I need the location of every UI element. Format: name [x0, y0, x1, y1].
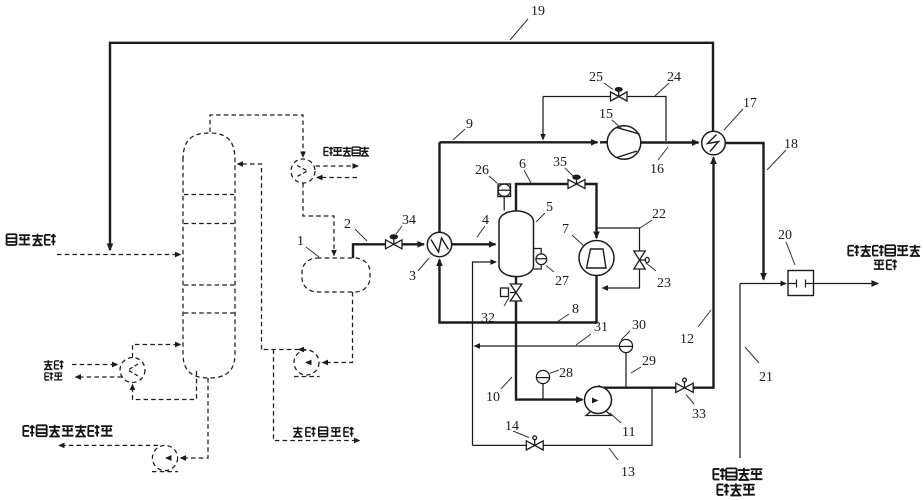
- svg-text:5: 5: [546, 200, 553, 215]
- wire pump 11 discharge line: [597, 387, 676, 389]
- heat exchanger 3: [427, 232, 451, 256]
- wire cooling water outlet: [316, 165, 359, 167]
- wire line 8 riser into heat exchanger 3: [438, 260, 440, 323]
- wire mixer inlet line from line 21: [740, 283, 786, 285]
- column tray line 2: [184, 223, 234, 225]
- wire line 9 suction header: [440, 141, 598, 143]
- wire bypass line 22 around compressor 7: [598, 228, 640, 251]
- svg-text:32: 32: [481, 311, 495, 326]
- svg-text:19: 19: [531, 4, 545, 19]
- svg-text:27: 27: [555, 274, 569, 289]
- wire condensate outlet: [76, 376, 123, 378]
- text label: 混合物 (mixture): [717, 483, 755, 495]
- compressor 15: [607, 126, 641, 160]
- svg-text:33: 33: [692, 407, 706, 422]
- text label: 循环冷却水 (circulating cooling water): [324, 147, 369, 156]
- wire line 16 compressor discharge: [641, 141, 699, 143]
- text label: 蒸汽 (steam): [44, 360, 64, 369]
- wire riser from line 13 to vessel 5: [473, 262, 497, 445]
- svg-text:10: 10: [486, 390, 500, 405]
- valve 33: [676, 383, 693, 392]
- instrument 30: [619, 339, 632, 352]
- wire left riser line 9 side: [438, 142, 440, 232]
- svg-text:14: 14: [505, 419, 519, 434]
- valve 25: [611, 92, 628, 101]
- wire line 10 valve 32 to pump 11: [516, 301, 583, 400]
- wire steam inlet: [72, 364, 118, 366]
- wire line 6 vessel 5 overhead: [516, 184, 568, 211]
- column tray line 4: [184, 312, 234, 314]
- wire cooling water inlet: [317, 177, 357, 179]
- svg-text:7: 7: [562, 222, 569, 237]
- compressor 7: [579, 241, 614, 276]
- svg-text:34: 34: [402, 213, 416, 228]
- wire line 18: [725, 143, 763, 280]
- wire column bottom draw to reboiler: [133, 371, 197, 400]
- wire feed propane line: [57, 254, 181, 256]
- instrument 28: [536, 370, 549, 383]
- svg-text:3: 3: [409, 269, 416, 284]
- svg-text:30: 30: [632, 318, 646, 333]
- pump 11 internal arrow: [592, 400, 598, 402]
- wire reflux pump discharge: [299, 349, 307, 351]
- reflux pump: [294, 350, 319, 375]
- wire vessel 5 bottom to valve 32: [515, 277, 517, 284]
- reflux drum (dashed echo of drum 1): [302, 258, 370, 292]
- svg-text:13: 13: [621, 465, 635, 480]
- text label: 碳四及以上组分 (C4 and heavier components): [23, 425, 112, 437]
- wire C4+ bottoms product line: [59, 444, 158, 446]
- text label: 液相产品 (liquid phase product): [713, 468, 762, 480]
- valve 14: [526, 441, 543, 450]
- svg-text:23: 23: [657, 276, 671, 291]
- wire line 19 recycle to column feed: [110, 43, 713, 250]
- reference number labels: [297, 4, 798, 480]
- valve 32: [510, 284, 521, 301]
- svg-text:16: 16: [650, 162, 664, 177]
- text label: 凝液 (condensate): [45, 372, 62, 380]
- svg-text:22: 22: [652, 207, 666, 222]
- wire reboiler vapor return to column: [133, 345, 181, 358]
- wire mixer outlet to deethanizer: [814, 283, 879, 285]
- column tray line 1: [184, 194, 234, 196]
- svg-text:31: 31: [594, 320, 608, 335]
- wire condenser outlet to reflux drum: [303, 183, 334, 256]
- svg-text:1: 1: [297, 234, 304, 249]
- wire line 21 liquid product mixture: [739, 284, 741, 459]
- wire reflux riser to column top: [238, 164, 262, 350]
- heat exchanger 17: [702, 131, 726, 155]
- valve 32 actuator box: [501, 288, 509, 297]
- wire line 2 drum to heat exchanger 3: [353, 244, 385, 258]
- wire anti-surge bypass line 24: [543, 97, 666, 142]
- column tray line 3: [184, 284, 234, 286]
- reboiler: [120, 358, 145, 383]
- wire high purity propane product line: [274, 350, 360, 441]
- wire line 31 return to vessel 5: [475, 345, 620, 347]
- svg-text:15: 15: [599, 107, 613, 122]
- svg-text:12: 12: [680, 332, 694, 347]
- mixer 20: [788, 271, 814, 296]
- svg-text:17: 17: [743, 96, 757, 111]
- wire line 13 minimum-flow line: [473, 389, 653, 446]
- svg-text:9: 9: [466, 117, 473, 132]
- svg-text:24: 24: [667, 70, 681, 85]
- bypass arrow onto line 9: [542, 133, 544, 140]
- pump discharge flow arrow: [600, 387, 604, 389]
- svg-text:35: 35: [553, 155, 567, 170]
- svg-text:25: 25: [589, 70, 603, 85]
- vessel 5 economizer drum: [499, 211, 534, 277]
- text label: 原料丙烷 (feed propane): [7, 234, 56, 245]
- wire drum bottom outlet to reflux pump: [323, 292, 353, 363]
- wire line 29: [625, 353, 627, 387]
- svg-text:18: 18: [784, 137, 798, 152]
- text label: 脱乙烷塔系统 (deethanizer tower system): [848, 245, 920, 256]
- svg-text:28: 28: [559, 366, 573, 381]
- svg-text:26: 26: [475, 163, 489, 178]
- distillation column shell: [183, 133, 235, 378]
- wire column bottoms line to bottoms pump: [181, 378, 209, 458]
- wire line from compressor 7 to line 8: [595, 276, 597, 323]
- svg-text:8: 8: [572, 302, 579, 317]
- reflux pump internal arrow: [306, 362, 309, 364]
- leader lines: [306, 19, 795, 460]
- bottoms pump: [152, 445, 177, 470]
- wire line 8: [438, 321, 597, 323]
- reboiler internal chevron: [128, 364, 138, 376]
- reflux pump base: [294, 376, 320, 378]
- condenser internal chevron: [297, 166, 308, 177]
- pump 11 base: [586, 412, 611, 416]
- valve 23: [634, 251, 645, 269]
- svg-text:11: 11: [622, 425, 635, 440]
- svg-text:29: 29: [642, 354, 656, 369]
- bottoms pump internal arrow: [166, 457, 169, 459]
- wire column overhead vapor line: [210, 115, 303, 157]
- svg-text:2: 2: [344, 217, 351, 232]
- svg-text:4: 4: [482, 213, 489, 228]
- instrument 27: [534, 249, 541, 270]
- condenser (circulating cooling water cooler): [291, 159, 315, 183]
- bottoms pump base: [152, 471, 178, 473]
- valve 35: [568, 180, 585, 189]
- instrument 26: [498, 184, 511, 197]
- text label: 高纯度丙烷 (high purity propane): [293, 427, 354, 437]
- wire line 4 heat exchanger 3 to vessel 5: [452, 243, 496, 245]
- svg-text:20: 20: [778, 228, 792, 243]
- svg-text:6: 6: [519, 157, 526, 172]
- svg-text:21: 21: [759, 370, 773, 385]
- text label: 进料 (feed): [874, 259, 897, 269]
- wire line 12 valve 33 to heat exchanger 17: [694, 158, 714, 388]
- valve 34: [386, 240, 403, 249]
- pump 11: [585, 387, 612, 414]
